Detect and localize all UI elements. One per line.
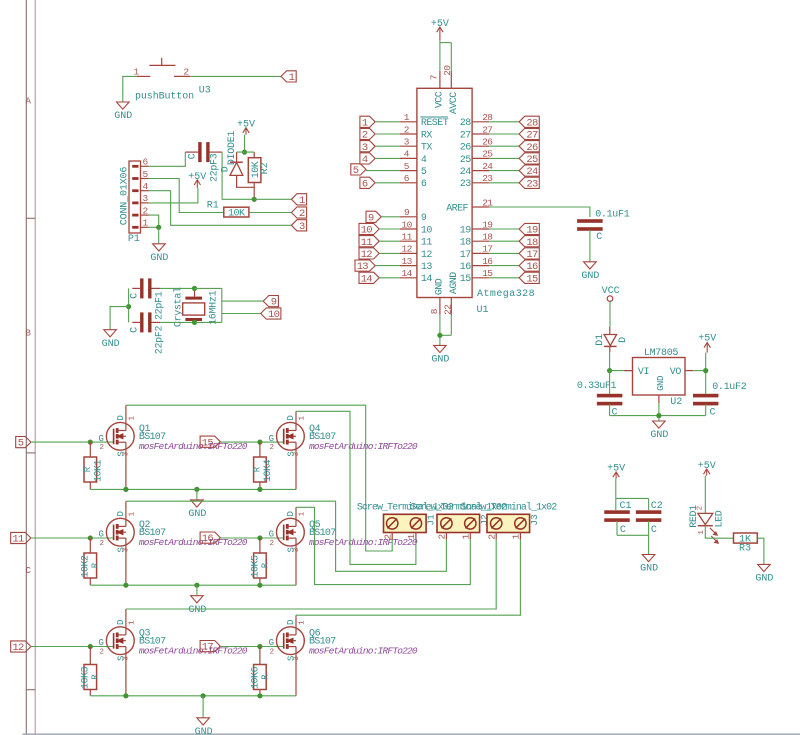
wire Q1 drain rail to J1 pin2	[126, 405, 392, 551]
svg-text:2: 2	[270, 444, 275, 452]
svg-text:2: 2	[99, 648, 104, 656]
connector J3 Screw_Terminal_1x02	[487, 514, 530, 539]
svg-text:mosFetArduino:IRFTo220: mosFetArduino:IRFTo220	[309, 646, 418, 657]
wire P1 pin6 to cap 22pF3	[149, 152, 186, 166]
svg-text:4: 4	[421, 155, 427, 166]
svg-text:C: C	[710, 407, 716, 418]
ground	[188, 596, 206, 616]
svg-text:16: 16	[460, 262, 471, 273]
svg-text:2: 2	[299, 208, 305, 220]
U1 left pins group2 names	[421, 213, 432, 285]
label Q6 BS107	[309, 628, 418, 656]
svg-text:16MHz1: 16MHz1	[209, 290, 220, 325]
resistor 10K4	[254, 442, 267, 489]
svg-text:G: G	[98, 638, 103, 648]
svg-text:C1: C1	[619, 501, 631, 512]
U1 left tags group2	[366, 211, 381, 224]
svg-text:22pF2: 22pF2	[154, 325, 165, 354]
svg-text:27: 27	[460, 130, 471, 141]
svg-text:15: 15	[202, 437, 214, 449]
node tag 17	[200, 641, 220, 654]
capacitor C2	[636, 510, 662, 535]
U1 right pins group1 stubs and numbers	[472, 112, 493, 184]
svg-text:2: 2	[362, 130, 368, 142]
connector P1 CONN_01X06	[129, 157, 149, 233]
svg-text:GND: GND	[640, 564, 658, 575]
svg-text:4: 4	[404, 149, 410, 160]
svg-text:mosFetArduino:IRFTo220: mosFetArduino:IRFTo220	[139, 441, 248, 452]
transistor Q3	[98, 609, 136, 696]
wire P1 pin2 down	[149, 215, 159, 227]
U1 left tags group1	[360, 116, 375, 129]
svg-text:10K4: 10K4	[263, 460, 274, 483]
node tag 2	[291, 207, 306, 220]
ground	[188, 500, 206, 520]
svg-text:R1: R1	[207, 201, 219, 212]
svg-text:C: C	[25, 566, 31, 576]
svg-text:D: D	[286, 620, 296, 625]
svg-text:12: 12	[421, 250, 432, 261]
svg-text:A: A	[25, 96, 31, 106]
wire gate Q6	[220, 646, 283, 648]
wire P1 pin1 to GND	[149, 226, 159, 228]
svg-text:13: 13	[357, 261, 369, 273]
junction	[194, 487, 199, 492]
transistor Q1	[98, 405, 136, 489]
wire gate Q2	[31, 537, 114, 539]
svg-text:VO: VO	[670, 367, 682, 378]
wire source rail row Q1	[90, 488, 296, 490]
svg-text:11: 11	[421, 238, 432, 249]
svg-text:2: 2	[99, 540, 104, 548]
svg-text:R: R	[83, 466, 93, 472]
power VCC node	[602, 286, 620, 302]
svg-text:9: 9	[421, 213, 427, 224]
resistor R2	[248, 152, 261, 199]
svg-text:GND: GND	[755, 574, 773, 585]
ground	[102, 330, 120, 350]
capacitor 0.1uF2	[693, 394, 719, 416]
diode DIODE1	[230, 152, 254, 187]
wire to crystal GND	[110, 307, 129, 330]
U1 left pins group2 stubs and numbers	[400, 207, 417, 279]
svg-text:12: 12	[361, 249, 373, 261]
resistor R1	[224, 207, 249, 217]
svg-text:C: C	[129, 327, 140, 333]
svg-text:R2: R2	[260, 162, 271, 174]
svg-text:1: 1	[299, 511, 307, 516]
wire Q2 drain rail to J2 pin2	[126, 501, 447, 571]
label R and 10K4	[253, 460, 274, 483]
svg-text:23: 23	[460, 179, 471, 190]
svg-text:R: R	[260, 674, 270, 680]
svg-text:3: 3	[123, 547, 131, 552]
U1 right tags group2	[489, 228, 519, 230]
wire pushbutton pin1 to GND corner	[123, 76, 137, 102]
svg-text:4: 4	[142, 181, 148, 192]
svg-text:5: 5	[142, 169, 148, 180]
resistor 10K6	[254, 647, 267, 696]
LED RED1	[698, 513, 719, 543]
svg-text:2: 2	[437, 534, 448, 540]
svg-text:1: 1	[128, 415, 136, 420]
wire +5V to C1 C2	[616, 479, 649, 510]
svg-text:2: 2	[487, 534, 498, 540]
wire R1 to tag 2	[249, 212, 292, 214]
transistor Q6	[269, 615, 307, 696]
svg-text:D: D	[116, 415, 126, 420]
label pushButton U3	[135, 85, 211, 102]
node tag 3	[291, 220, 306, 233]
svg-text:mosFetArduino:IRFTo220: mosFetArduino:IRFTo220	[139, 646, 248, 657]
svg-text:U2: U2	[670, 397, 682, 408]
svg-text:17: 17	[460, 250, 471, 261]
ground	[195, 718, 213, 735]
wire caps left join to GND	[128, 288, 130, 322]
node tag 15	[200, 436, 220, 449]
label 10K3 and R	[81, 667, 101, 690]
junction	[88, 440, 93, 445]
svg-text:P1: P1	[128, 234, 140, 245]
svg-text:27: 27	[526, 130, 538, 142]
svg-text:GND: GND	[195, 727, 213, 735]
svg-text:13: 13	[401, 256, 412, 267]
svg-text:10K1: 10K1	[93, 460, 104, 483]
resistor 10K5	[254, 538, 267, 585]
svg-text:3: 3	[299, 221, 305, 233]
svg-text:2: 2	[142, 205, 148, 216]
svg-text:22pF1: 22pF1	[154, 291, 165, 320]
svg-text:3: 3	[293, 451, 301, 456]
svg-text:B: B	[25, 329, 31, 339]
svg-text:G: G	[269, 434, 274, 444]
svg-text:1: 1	[511, 534, 522, 540]
svg-text:19: 19	[526, 225, 538, 237]
svg-text:3: 3	[123, 451, 131, 456]
svg-text:10: 10	[268, 309, 280, 321]
svg-text:25: 25	[460, 155, 471, 166]
resistor 10K1	[84, 442, 97, 489]
svg-text:3: 3	[123, 656, 131, 661]
power +5V	[698, 461, 716, 476]
svg-text:Screw_Terminal_1x02: Screw_Terminal_1x02	[460, 502, 557, 514]
capacitor 22pF2	[132, 312, 160, 332]
resistor 10K3	[84, 647, 97, 696]
svg-text:10K: 10K	[228, 209, 245, 220]
svg-text:18: 18	[526, 237, 538, 249]
svg-text:8: 8	[429, 308, 440, 314]
capacitor 22pF3	[185, 142, 222, 162]
power +5V	[607, 464, 625, 479]
svg-text:1: 1	[128, 511, 136, 516]
svg-text:GND: GND	[188, 509, 206, 520]
U1 top pins VCC AVCC	[429, 65, 460, 115]
svg-text:9: 9	[404, 207, 410, 218]
junction	[257, 487, 262, 492]
label Q1 BS107	[139, 424, 248, 452]
svg-text:R: R	[91, 562, 101, 568]
junction	[201, 693, 206, 698]
svg-text:GND: GND	[650, 430, 668, 441]
wire +5V to U1 pins 7 20	[440, 40, 451, 71]
svg-text:6: 6	[362, 178, 368, 190]
U1 right tags group1	[489, 121, 519, 123]
U1 right pins group2 names	[460, 225, 471, 285]
svg-text:5: 5	[18, 438, 24, 450]
svg-text:2: 2	[183, 66, 189, 77]
svg-text:3: 3	[293, 656, 301, 661]
svg-text:16: 16	[526, 261, 538, 273]
wire Q3 drain rail to J3 pin2	[126, 540, 496, 609]
svg-text:GND: GND	[434, 278, 445, 295]
ground	[114, 102, 132, 122]
connector J2 Screw_Terminal_1x02	[437, 514, 480, 539]
junction	[123, 583, 128, 588]
label Q3 BS107	[139, 628, 248, 656]
junction	[257, 440, 262, 445]
svg-text:4: 4	[362, 154, 368, 166]
svg-text:24: 24	[526, 166, 538, 178]
svg-text:GND: GND	[581, 271, 599, 282]
junction	[194, 583, 199, 588]
svg-text:CONN_01X06: CONN_01X06	[120, 167, 131, 226]
svg-text:9: 9	[368, 212, 374, 224]
svg-text:14: 14	[401, 268, 412, 279]
svg-text:3: 3	[293, 547, 301, 552]
svg-text:mosFetArduino:IRFTo220: mosFetArduino:IRFTo220	[139, 537, 248, 548]
svg-text:D: D	[618, 337, 629, 343]
wire VCC to diode D1	[609, 301, 611, 327]
svg-text:16: 16	[202, 533, 214, 545]
node A junction	[252, 197, 257, 202]
svg-text:1: 1	[461, 534, 472, 540]
junction	[156, 225, 161, 230]
svg-text:2: 2	[99, 444, 104, 452]
svg-text:2: 2	[383, 534, 394, 540]
junction	[607, 368, 612, 373]
svg-text:0.33uF1: 0.33uF1	[577, 381, 617, 392]
node tag 5 at frame	[16, 437, 31, 450]
svg-text:VI: VI	[638, 367, 649, 378]
svg-text:28: 28	[460, 118, 471, 129]
svg-text:U1: U1	[477, 305, 489, 316]
ground	[431, 345, 449, 365]
svg-text:2: 2	[270, 540, 275, 548]
svg-text:GND: GND	[102, 339, 120, 350]
U1 bottom pins GND AGND	[429, 272, 460, 315]
wire GND drop	[196, 585, 198, 596]
svg-text:12: 12	[12, 642, 24, 654]
svg-text:LM7805: LM7805	[644, 348, 679, 359]
svg-text:D1: D1	[595, 334, 606, 346]
svg-text:DIODE1: DIODE1	[227, 131, 238, 166]
svg-text:C: C	[612, 407, 618, 418]
svg-text:1: 1	[406, 534, 417, 540]
wire crystal to tags 9 10	[195, 288, 264, 322]
svg-text:6: 6	[404, 173, 410, 184]
resistor 10K2	[84, 538, 97, 585]
svg-text:10: 10	[401, 219, 412, 230]
svg-text:GND: GND	[188, 605, 206, 616]
svg-text:1: 1	[299, 415, 307, 420]
wire P1 pin4 to tag 3	[149, 191, 292, 226]
U1 pin 21 AREF stub	[472, 197, 493, 208]
svg-text:14: 14	[361, 273, 373, 285]
wire input node to U2 VI	[610, 370, 633, 372]
wire Q5 drain rail to J2 pin1	[296, 507, 470, 584]
label 10K2 and R	[81, 555, 101, 578]
svg-text:22pF3: 22pF3	[209, 153, 220, 182]
label Q4 BS107	[309, 424, 418, 452]
svg-text:AVCC: AVCC	[449, 92, 460, 114]
wire +5V to LED	[704, 476, 706, 514]
svg-text:1: 1	[362, 117, 368, 129]
svg-text:11: 11	[401, 232, 412, 243]
svg-text:2: 2	[404, 124, 410, 135]
diode D1	[604, 327, 617, 352]
junction	[437, 333, 442, 338]
wire R3 to GND	[757, 538, 764, 564]
wire U2 VO to +5V and cap	[693, 353, 706, 394]
svg-text:GND: GND	[150, 253, 168, 264]
svg-text:2: 2	[270, 648, 275, 656]
wire gate Q3	[31, 646, 114, 648]
ground	[581, 262, 599, 282]
svg-text:5: 5	[353, 165, 359, 177]
node tag 10	[261, 308, 281, 321]
node tag 1 (button)	[281, 71, 296, 84]
power +5V	[698, 334, 716, 353]
label 10K5 and R	[250, 555, 270, 578]
junction	[703, 368, 708, 373]
svg-text:3: 3	[362, 142, 368, 154]
crystal 16MHz1	[183, 288, 205, 322]
svg-text:25: 25	[526, 154, 538, 166]
capacitor C1	[604, 510, 630, 535]
svg-text:D: D	[116, 511, 126, 516]
power +5V	[431, 19, 449, 41]
svg-text:Crystal: Crystal	[172, 287, 184, 327]
wire source rail row Q3	[90, 695, 296, 697]
power +5V	[188, 172, 206, 188]
svg-text:D: D	[286, 415, 296, 420]
wire 22pF3 to node A	[222, 152, 254, 199]
wire Q4 drain rail to J1 pin1	[296, 411, 416, 564]
junction	[257, 693, 262, 698]
svg-text:GND: GND	[431, 355, 449, 366]
svg-text:G: G	[98, 434, 103, 444]
wire gate Q5	[220, 537, 283, 539]
wire source rail row Q2	[90, 584, 296, 586]
svg-text:C: C	[596, 232, 602, 243]
wire D1 to U2 input node	[609, 352, 611, 371]
svg-text:Atmega328: Atmega328	[477, 289, 535, 300]
svg-text:C: C	[129, 293, 140, 299]
node tag 11 at frame	[11, 532, 31, 545]
svg-text:G: G	[269, 530, 274, 540]
svg-text:R: R	[253, 466, 263, 472]
svg-text:1: 1	[289, 72, 295, 84]
node tag 16	[200, 532, 220, 545]
svg-text:15: 15	[460, 274, 471, 285]
U1 left pins group1 stubs and numbers	[400, 112, 417, 184]
svg-text:22: 22	[443, 304, 454, 315]
label 10K6 and R	[250, 667, 270, 690]
wire C1 C2 to GND	[617, 535, 649, 554]
op-amp U1 Atmega328 body	[417, 88, 472, 297]
capacitor 0.33uF1	[597, 371, 623, 416]
svg-text:11: 11	[361, 237, 373, 249]
svg-text:1: 1	[404, 112, 410, 123]
svg-text:GND: GND	[114, 111, 132, 122]
svg-text:19: 19	[460, 225, 471, 236]
transistor Q2	[98, 501, 136, 585]
ground	[150, 244, 168, 264]
svg-text:17: 17	[526, 249, 538, 261]
capacitor 0.1uF1	[577, 219, 603, 262]
node tag 9	[263, 296, 278, 309]
svg-text:RX: RX	[421, 130, 432, 141]
label Q2 BS107	[139, 520, 248, 548]
wire Q6 drain rail to J3 pin1	[296, 540, 520, 616]
svg-text:VCC: VCC	[434, 91, 445, 108]
U1 left pins group1 names	[420, 117, 448, 190]
svg-text:5: 5	[404, 161, 410, 172]
ground	[640, 555, 658, 575]
junction	[123, 487, 128, 492]
svg-text:6: 6	[142, 157, 148, 168]
svg-text:14: 14	[421, 274, 432, 285]
svg-text:10: 10	[361, 225, 373, 237]
svg-text:VCC: VCC	[602, 286, 620, 297]
svg-text:GND: GND	[656, 376, 666, 391]
transistor Q5	[269, 507, 307, 585]
wire P1 pin5 to R1	[149, 179, 224, 213]
svg-text:7: 7	[429, 75, 440, 81]
junction	[257, 535, 262, 540]
svg-text:1: 1	[128, 620, 136, 625]
label Q5 BS107	[309, 520, 418, 548]
svg-text:28: 28	[526, 117, 538, 129]
svg-text:R: R	[260, 562, 270, 568]
junction	[123, 693, 128, 698]
svg-text:24: 24	[460, 167, 471, 178]
wire GND drop row3	[202, 696, 204, 718]
junction	[257, 644, 262, 649]
svg-text:J1: J1	[426, 514, 437, 526]
label R and 10K1	[83, 460, 104, 483]
junction	[88, 644, 93, 649]
node tag 1	[291, 194, 306, 207]
transistor Q4	[269, 411, 307, 489]
svg-text:18: 18	[460, 238, 471, 249]
svg-text:13: 13	[421, 262, 432, 273]
ground	[755, 564, 773, 584]
svg-text:26: 26	[526, 142, 538, 154]
svg-text:0.1uF1: 0.1uF1	[595, 209, 630, 220]
svg-text:D: D	[220, 166, 231, 172]
svg-text:C: C	[651, 525, 657, 536]
svg-text:R: R	[91, 674, 101, 680]
U1 right pins group2 stubs and numbers	[472, 219, 493, 279]
svg-text:10: 10	[421, 225, 432, 236]
power +5V	[237, 120, 255, 135]
wire AREF to cap 0.1uF1	[489, 207, 590, 217]
junction	[88, 535, 93, 540]
svg-text:D: D	[286, 511, 296, 516]
wire GND drop	[196, 489, 198, 500]
wire LED to R3	[705, 526, 733, 539]
